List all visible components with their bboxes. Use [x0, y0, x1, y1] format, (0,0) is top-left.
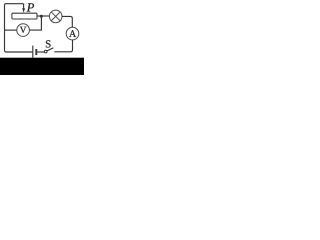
battery short thick plate	[35, 49, 37, 55]
wire: battery to switch	[37, 51, 44, 53]
background	[0, 0, 84, 75]
battery long plate	[32, 46, 34, 58]
label S	[46, 40, 51, 47]
wiper arrow of rheostat	[23, 4, 25, 9]
node junction dot	[40, 15, 43, 18]
lamp (circle with X)	[49, 10, 62, 23]
wire: lamp to ammeter (top right corner)	[62, 16, 72, 27]
resistor (rheostat) P body	[12, 13, 37, 19]
switch S lever	[47, 48, 54, 51]
wire: ammeter down and left to switch	[54, 40, 72, 52]
voltmeter V	[17, 24, 30, 37]
wire: node down to voltmeter branch	[29, 16, 41, 30]
wire: voltmeter left to rail	[5, 29, 17, 31]
wire: rheostat to node	[37, 15, 49, 17]
black band at bottom	[0, 58, 84, 75]
label P	[27, 3, 34, 11]
ammeter A	[66, 27, 79, 40]
wire: left vertical rail	[4, 5, 6, 50]
wire: bottom left	[5, 50, 33, 52]
wire: top horizontal to wiper	[5, 4, 24, 5]
switch pivot	[44, 50, 47, 53]
